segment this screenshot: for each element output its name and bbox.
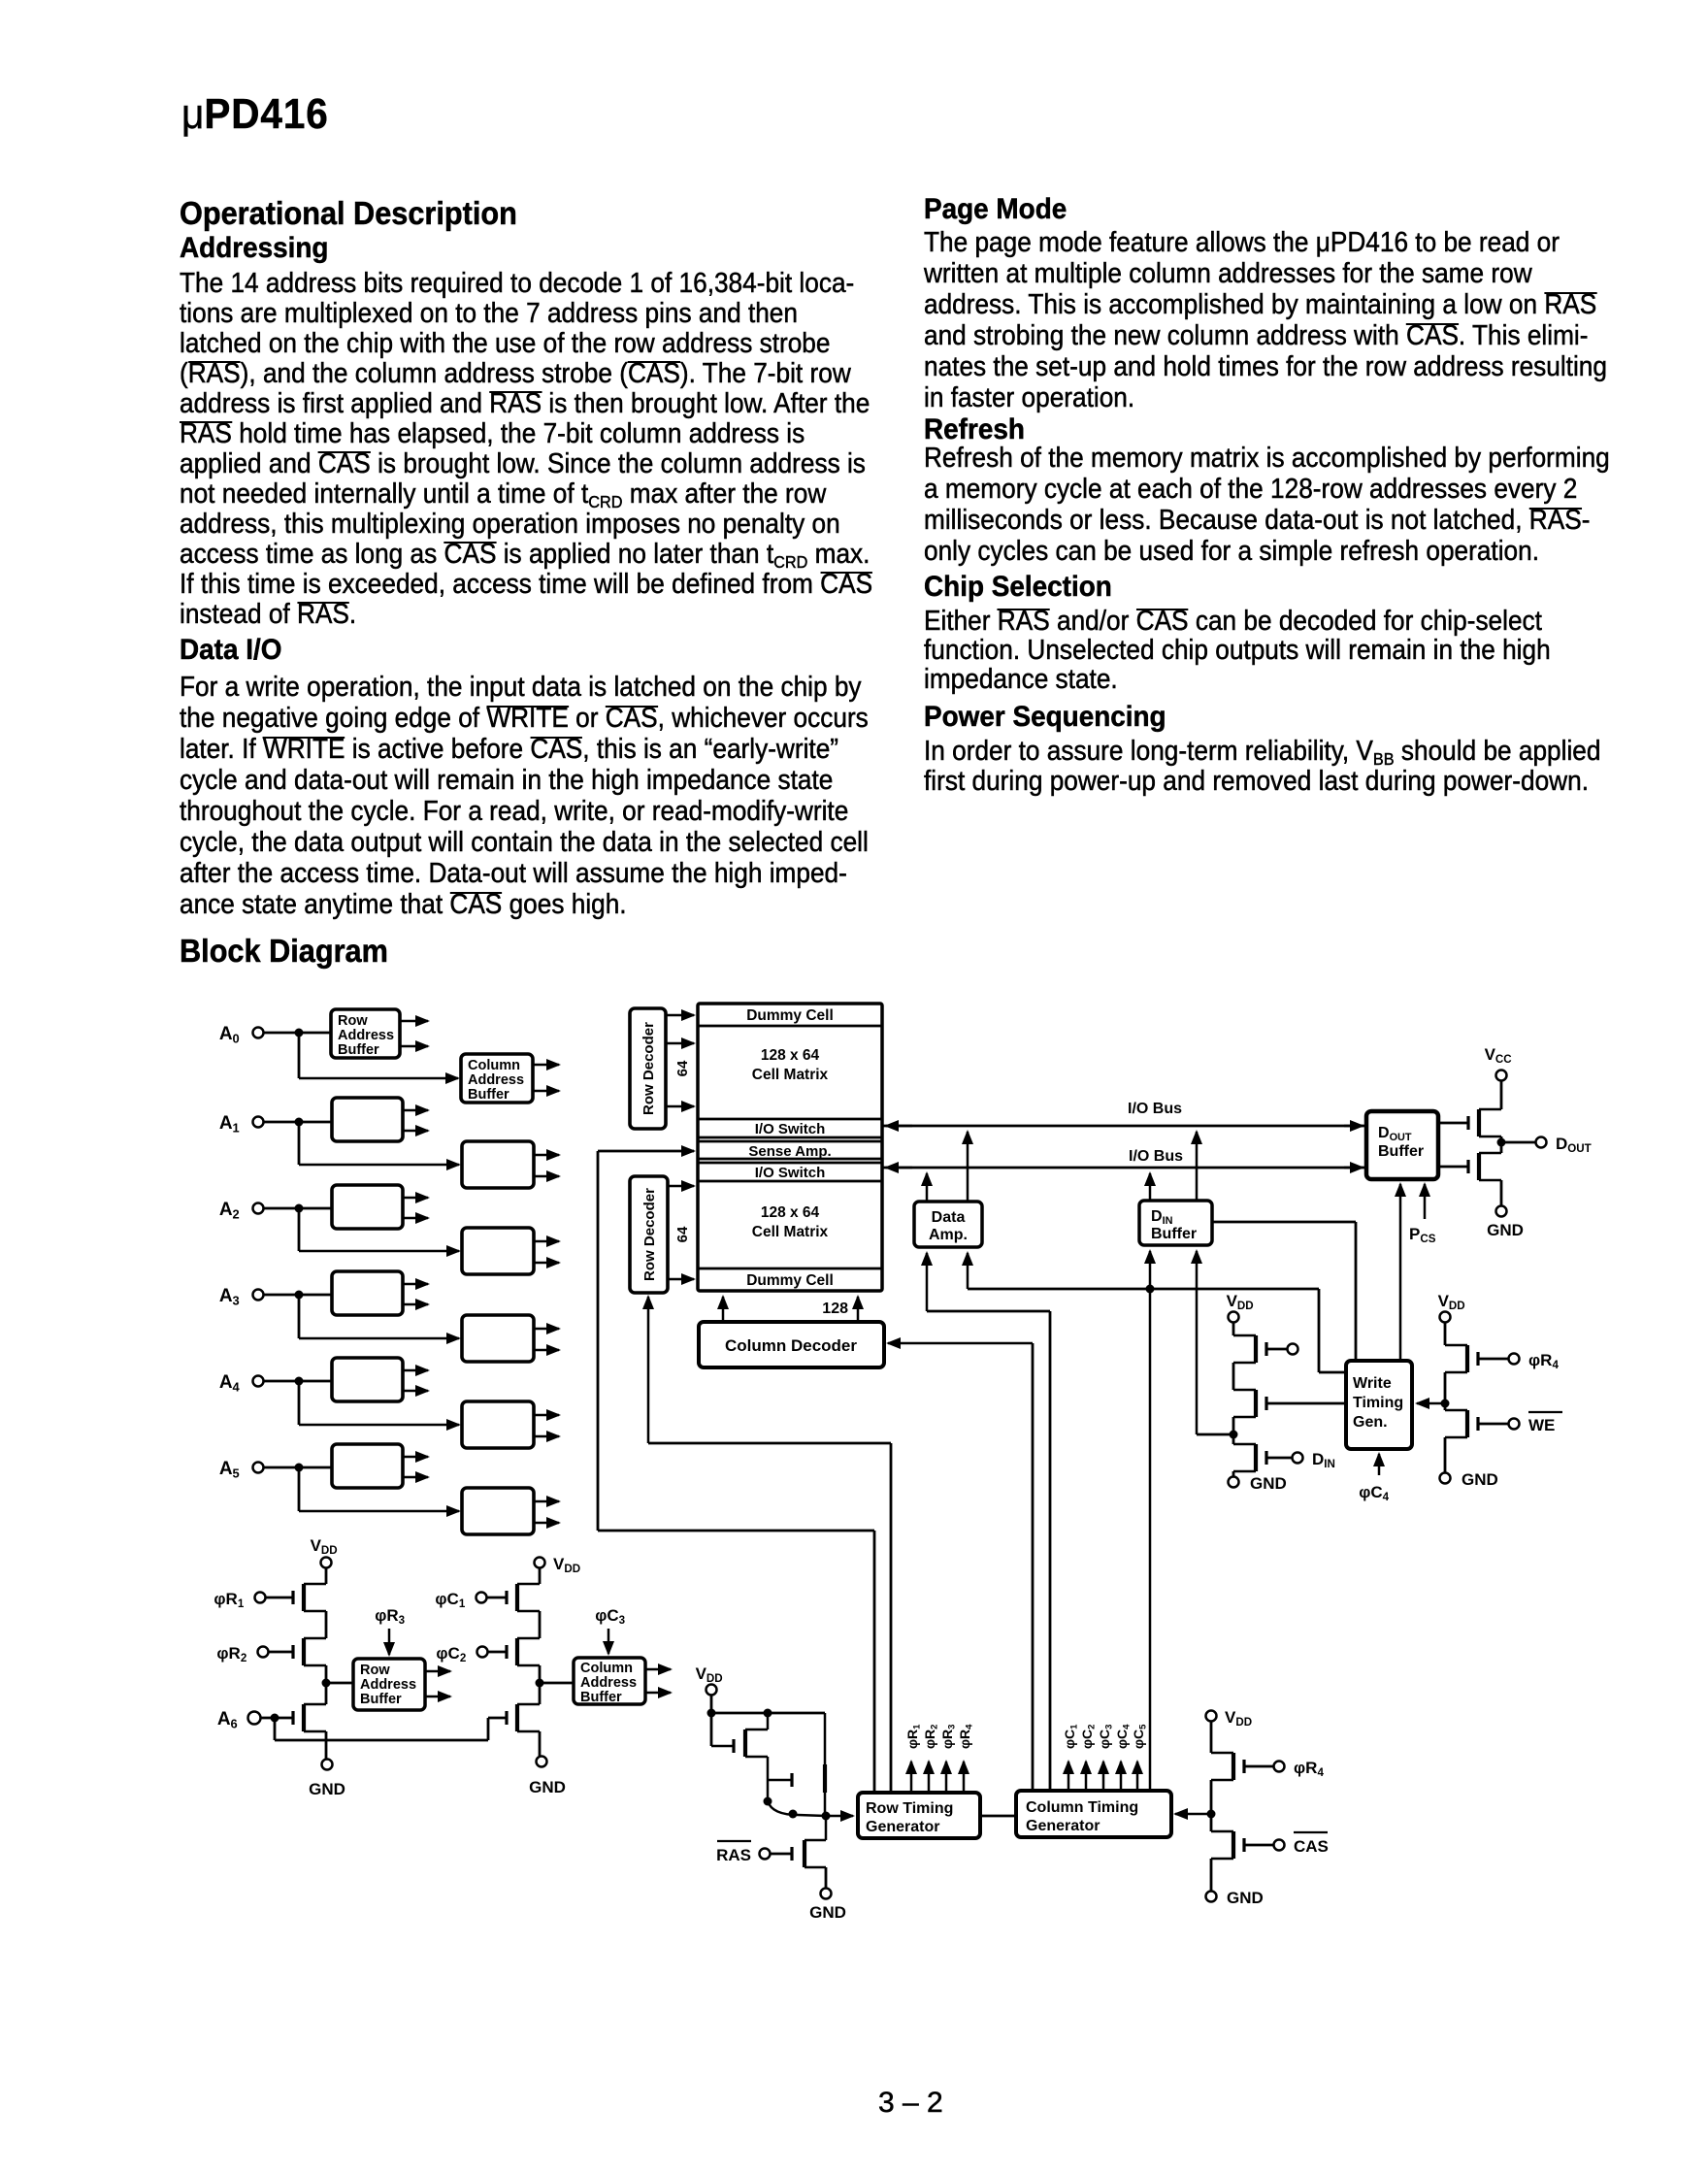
svg-text:VDD: VDD	[1227, 1292, 1259, 1312]
cell matrix upper label	[752, 1047, 829, 1083]
column timing generator	[1016, 1791, 1171, 1837]
svg-text:Address: Address	[360, 1677, 416, 1693]
column stack rail	[536, 1568, 544, 1756]
svg-text:φC5: φC5	[1131, 1721, 1149, 1749]
row address buffer A5	[332, 1444, 403, 1488]
row address buffer A1 output arrows	[403, 1110, 428, 1131]
ras circuit load transistor 1	[711, 1713, 768, 1757]
gnd terminal a6 row stack	[309, 1760, 345, 1799]
wire A1 to row buffer	[264, 1118, 332, 1127]
svg-text:A0: A0	[219, 1024, 245, 1045]
column timing output arrows	[1068, 1762, 1137, 1791]
row address buffer lower	[353, 1659, 425, 1710]
svg-text:GND: GND	[1250, 1474, 1287, 1493]
input terminal A4	[219, 1372, 264, 1394]
column address buffer A4 output arrows	[534, 1415, 559, 1436]
wire write timing to data amp	[968, 1289, 1346, 1372]
column address buffer A1	[462, 1141, 534, 1188]
row address buffer A4	[332, 1358, 403, 1401]
wire row timing to row decoder	[648, 1297, 891, 1793]
row address buffer A4 output arrows	[403, 1370, 428, 1391]
svg-text:DIN: DIN	[1151, 1208, 1177, 1227]
row decoder upper	[630, 1008, 666, 1129]
Dout label	[1556, 1135, 1596, 1155]
wire A5 to column buffer	[299, 1467, 459, 1511]
data amp input arrows	[927, 1253, 968, 1311]
svg-text:GND: GND	[1487, 1221, 1524, 1239]
svg-text:Row Decoder: Row Decoder	[640, 1022, 657, 1115]
wire row timing to column timing	[980, 1815, 1016, 1818]
svg-text:Cell Matrix: Cell Matrix	[752, 1067, 829, 1083]
wire dout buffer to upper gate	[1438, 1122, 1468, 1125]
column address buffer A2 output arrows	[534, 1241, 559, 1263]
din buffer	[1139, 1201, 1212, 1245]
din buffer to io bus arrows	[1150, 1132, 1197, 1201]
svg-text:I/O Bus: I/O Bus	[1128, 1101, 1182, 1117]
phiC1 terminal	[435, 1590, 507, 1610]
wire a6 stack to row address buffer	[326, 1682, 353, 1685]
svg-text:Column Decoder: Column Decoder	[725, 1336, 857, 1355]
128 label	[822, 1301, 848, 1317]
64 label upper	[674, 1060, 691, 1076]
column address buffer A5 output arrows	[534, 1501, 559, 1523]
phiR4 terminal	[1478, 1351, 1563, 1371]
svg-text:PCS: PCS	[1409, 1225, 1440, 1245]
svg-text:A1: A1	[219, 1113, 245, 1135]
svg-text:128: 128	[822, 1301, 848, 1317]
cas stack rail	[1210, 1722, 1213, 1891]
svg-text:DOUT: DOUT	[1556, 1135, 1596, 1155]
svg-text:CAS: CAS	[1294, 1837, 1329, 1856]
io switch upper label	[755, 1121, 826, 1137]
svg-text:φR3: φR3	[939, 1721, 958, 1749]
RAS terminal	[716, 1841, 792, 1864]
svg-text:Column: Column	[580, 1661, 633, 1676]
svg-text:Address: Address	[468, 1072, 524, 1088]
svg-text:φR1: φR1	[904, 1721, 923, 1749]
din stack rail	[1230, 1323, 1238, 1476]
Pcs label	[1409, 1225, 1440, 1245]
row address buffer A3 output arrows	[403, 1284, 428, 1304]
row address buffer A2 output arrows	[403, 1198, 428, 1218]
phiC4 output label	[1114, 1721, 1133, 1749]
WE terminal	[1478, 1412, 1562, 1434]
input terminal A5	[219, 1459, 264, 1480]
row decoder lower	[630, 1176, 668, 1293]
output transistor lower	[1468, 1153, 1501, 1180]
phiC4 input arrow	[1378, 1454, 1381, 1475]
A6 terminal	[217, 1709, 293, 1730]
svg-text:Row: Row	[360, 1663, 390, 1678]
Block Diagram heading	[180, 935, 388, 967]
gnd terminal column stack	[529, 1757, 566, 1797]
svg-text:VDD: VDD	[311, 1536, 343, 1557]
svg-text:GND: GND	[809, 1903, 846, 1922]
din stack gate 1 terminal	[1266, 1344, 1298, 1355]
svg-text:GND: GND	[529, 1778, 566, 1796]
left column headings	[180, 197, 517, 229]
svg-text:φC3: φC3	[595, 1606, 630, 1627]
svg-text:GND: GND	[309, 1780, 345, 1798]
row address buffer A2	[332, 1185, 403, 1229]
data amp to io bus arrows	[927, 1132, 968, 1202]
row decoder upper to matrix arrows	[666, 1015, 694, 1106]
Vdd terminal column stack	[535, 1555, 585, 1575]
we stack rail	[1444, 1323, 1447, 1472]
wire row timing to sense amp	[598, 1151, 874, 1793]
svg-text:φC2: φC2	[1079, 1721, 1098, 1749]
phiC1 output label	[1062, 1721, 1080, 1749]
row address buffer A0	[331, 1009, 400, 1058]
phiC3 input arrow	[595, 1606, 630, 1654]
dummy cell upper label	[746, 1007, 834, 1024]
right column	[924, 195, 1067, 224]
svg-text:Dummy Cell: Dummy Cell	[746, 1007, 834, 1024]
svg-text:A3: A3	[219, 1286, 245, 1307]
svg-text:VDD: VDD	[553, 1555, 585, 1575]
wire column timing to column decoder	[888, 1343, 1033, 1791]
svg-text:I/O Switch: I/O Switch	[755, 1121, 826, 1137]
wire dout buffer to lower gate	[1438, 1166, 1468, 1169]
wire A1 to column buffer	[299, 1122, 459, 1165]
io switch lower label	[755, 1165, 826, 1181]
svg-text:VDD: VDD	[696, 1664, 728, 1685]
svg-text:Row Decoder: Row Decoder	[641, 1188, 658, 1281]
Vdd terminal ras circuit	[696, 1664, 728, 1696]
gnd terminal ras circuit	[809, 1867, 846, 1922]
svg-text:φC4: φC4	[1114, 1721, 1133, 1749]
svg-text:Address: Address	[338, 1028, 394, 1043]
left para 1	[180, 270, 854, 298]
svg-text:A5: A5	[219, 1459, 245, 1480]
page header	[181, 93, 329, 136]
svg-text:φR2: φR2	[216, 1644, 251, 1664]
svg-text:GND: GND	[1227, 1889, 1264, 1907]
CAS terminal	[1244, 1832, 1329, 1856]
phiR3 output label	[939, 1721, 958, 1749]
write timing input arrow from we stack	[1417, 1400, 1450, 1408]
wire column stack to column address buffer	[540, 1682, 574, 1685]
svg-text:64: 64	[674, 1060, 691, 1076]
svg-text:GND: GND	[1462, 1470, 1498, 1489]
Vdd terminal cas stack	[1206, 1708, 1257, 1729]
Vdd terminal din stack	[1227, 1292, 1259, 1323]
svg-text:Gen.: Gen.	[1353, 1414, 1388, 1431]
svg-text:Buffer: Buffer	[1378, 1143, 1424, 1160]
column stack transistor 2	[507, 1638, 540, 1665]
io bus lower	[882, 1167, 1366, 1169]
svg-text:A4: A4	[219, 1372, 245, 1394]
svg-text:Row Timing: Row Timing	[866, 1800, 953, 1817]
svg-text:Buffer: Buffer	[1151, 1226, 1197, 1242]
gnd terminal output stage	[1487, 1206, 1524, 1240]
svg-text:φR3: φR3	[375, 1606, 410, 1627]
Data I/O	[180, 636, 281, 665]
svg-text:Generator: Generator	[866, 1819, 939, 1835]
svg-text:WE: WE	[1528, 1416, 1555, 1434]
row decoder lower to matrix arrows	[668, 1186, 694, 1279]
cell matrix lower label	[752, 1204, 829, 1240]
column decoder to matrix arrows	[723, 1297, 858, 1322]
cell matrix block	[698, 1004, 882, 1291]
column address buffer A0 output arrows	[533, 1065, 559, 1091]
column address buffer A0	[461, 1054, 533, 1103]
dummy cell lower label	[746, 1272, 834, 1289]
row address buffer A3	[332, 1271, 403, 1315]
wire Vcc to output fet	[1500, 1081, 1503, 1109]
phiC4 label	[1359, 1483, 1394, 1503]
wire A6 to column stack gate	[275, 1718, 507, 1740]
column stack transistor 3	[507, 1704, 540, 1731]
wire A2 to row buffer	[264, 1204, 332, 1213]
wire A3 to column buffer	[299, 1295, 459, 1338]
page number	[878, 2089, 943, 2118]
svg-text:Data: Data	[932, 1209, 966, 1226]
wire A5 to row buffer	[264, 1464, 332, 1472]
svg-text:φC1: φC1	[435, 1590, 470, 1610]
dout buffer	[1366, 1111, 1438, 1179]
gnd terminal din stack	[1229, 1474, 1287, 1493]
din stack transistor 1	[1233, 1335, 1266, 1363]
a6 row stack transistor 3	[293, 1704, 326, 1731]
output transistor upper	[1468, 1109, 1501, 1136]
phiR4 terminal cas stack	[1244, 1759, 1329, 1779]
column address buffer lower output arrows	[645, 1669, 671, 1693]
svg-text:Cell Matrix: Cell Matrix	[752, 1224, 829, 1240]
ras circuit output node	[764, 1780, 831, 1821]
phiR3 input arrow	[375, 1606, 410, 1655]
io bus lower label	[1129, 1148, 1183, 1165]
phiR2 terminal	[216, 1644, 293, 1664]
svg-text:RAS: RAS	[716, 1846, 751, 1864]
a6 row stack transistor 2	[293, 1638, 326, 1665]
svg-text:VDD: VDD	[1225, 1708, 1257, 1729]
data amp	[914, 1202, 982, 1247]
svg-text:VDD: VDD	[1438, 1292, 1470, 1312]
Din terminal	[1266, 1450, 1340, 1470]
svg-text:I/O Bus: I/O Bus	[1129, 1148, 1183, 1165]
dout buffer input arrows	[1400, 1184, 1425, 1363]
din stack transistor 3	[1233, 1444, 1266, 1471]
cas stack transistor 2	[1211, 1831, 1244, 1859]
column decoder	[699, 1322, 884, 1367]
we stack transistor 1	[1445, 1345, 1478, 1372]
din buffer input arrow from column timing	[1146, 1251, 1155, 1791]
column address buffer A2	[462, 1228, 534, 1274]
svg-text:φC1: φC1	[1062, 1721, 1080, 1749]
gnd terminal cas stack	[1206, 1889, 1264, 1907]
row address buffer A5 output arrows	[403, 1457, 428, 1477]
svg-text:DOUT: DOUT	[1378, 1125, 1416, 1143]
sense amp label	[748, 1143, 831, 1160]
svg-text:φR2: φR2	[922, 1721, 940, 1749]
svg-text:Column: Column	[468, 1058, 520, 1073]
svg-text:φC4: φC4	[1359, 1483, 1394, 1503]
column stack transistor 1	[507, 1584, 540, 1611]
column address buffer A1 output arrows	[534, 1155, 559, 1176]
input terminal A0	[219, 1024, 264, 1045]
gnd terminal we stack	[1440, 1470, 1498, 1489]
Vcc terminal	[1485, 1045, 1517, 1081]
wire A0 to row buffer	[264, 1029, 331, 1038]
svg-text:φC3: φC3	[1097, 1721, 1115, 1749]
wire din buffer to write timing	[1212, 1222, 1356, 1363]
column timing input arrow from cas stack	[1175, 1810, 1216, 1819]
svg-text:DIN: DIN	[1312, 1450, 1340, 1470]
wire A4 to column buffer	[299, 1381, 459, 1425]
column address buffer A3	[462, 1315, 534, 1362]
phiR1 output label	[904, 1721, 923, 1749]
input terminal A2	[219, 1200, 264, 1221]
wire A3 to row buffer	[264, 1291, 332, 1300]
din stack transistor 2	[1233, 1390, 1266, 1417]
svg-text:Buffer: Buffer	[468, 1087, 509, 1103]
svg-text:Buffer: Buffer	[338, 1042, 379, 1058]
svg-text:Row: Row	[338, 1013, 368, 1029]
svg-text:Buffer: Buffer	[360, 1692, 402, 1707]
row address buffer A0 output arrows	[400, 1021, 428, 1046]
a6 row stack rail	[322, 1568, 331, 1759]
svg-text:Sense Amp.: Sense Amp.	[748, 1143, 831, 1160]
column address buffer lower	[574, 1658, 645, 1705]
phiC2 terminal	[436, 1644, 507, 1664]
ras input transistor	[792, 1816, 826, 1867]
wire A4 to row buffer	[264, 1377, 332, 1386]
svg-text:Buffer: Buffer	[580, 1690, 622, 1705]
phiC5 output label	[1131, 1721, 1149, 1749]
input terminal A1	[219, 1113, 264, 1135]
Vdd terminal a6 row stack	[311, 1536, 343, 1568]
svg-text:φR4: φR4	[1528, 1351, 1563, 1371]
ras circuit load transistor 2	[768, 1713, 825, 1793]
wire gate 2 to write timing	[1266, 1402, 1346, 1405]
write timing generator	[1346, 1361, 1412, 1449]
ras circuit vdd rail	[707, 1696, 826, 1746]
wire A2 to column buffer	[299, 1208, 459, 1251]
wire column timing to data amp	[927, 1311, 1050, 1791]
arrow to row timing generator	[826, 1815, 853, 1818]
svg-text:φR1: φR1	[213, 1590, 248, 1610]
cas stack transistor 1	[1211, 1753, 1244, 1780]
svg-text:φR4: φR4	[957, 1721, 975, 1749]
svg-text:Address: Address	[580, 1675, 637, 1691]
row address buffer A1	[332, 1098, 403, 1141]
wire A0 to column buffer	[299, 1033, 458, 1078]
we stack transistor 2	[1445, 1410, 1478, 1437]
phiR2 output label	[922, 1721, 940, 1749]
phiC3 output label	[1097, 1721, 1115, 1749]
phiR1 terminal	[213, 1590, 293, 1610]
svg-text:Amp.: Amp.	[929, 1227, 968, 1243]
din buffer input arrow from din stack	[1197, 1251, 1232, 1434]
phiR4 output label	[957, 1721, 975, 1749]
node Dout	[1497, 1136, 1547, 1153]
svg-text:A6: A6	[217, 1709, 243, 1730]
matrix divider lines	[698, 1026, 882, 1268]
svg-text:Column Timing: Column Timing	[1026, 1799, 1138, 1816]
svg-text:φC2: φC2	[436, 1644, 471, 1664]
svg-text:Generator: Generator	[1026, 1818, 1100, 1834]
svg-text:Write: Write	[1353, 1375, 1392, 1392]
svg-text:Dummy Cell: Dummy Cell	[746, 1272, 834, 1289]
io bus upper	[882, 1125, 1366, 1128]
svg-text:Timing: Timing	[1353, 1395, 1403, 1411]
svg-text:I/O Switch: I/O Switch	[755, 1165, 826, 1181]
column address buffer A4	[462, 1401, 534, 1448]
column address buffer A3 output arrows	[534, 1329, 559, 1350]
Vdd terminal we stack	[1438, 1292, 1470, 1323]
svg-text:128 x 64: 128 x 64	[761, 1047, 820, 1064]
64 label lower	[674, 1226, 691, 1242]
wire output fet to gnd	[1500, 1180, 1503, 1205]
phiC2 output label	[1079, 1721, 1098, 1749]
row address buffer lower output arrows	[425, 1671, 450, 1696]
svg-text:A2: A2	[219, 1200, 245, 1221]
column address buffer A5	[462, 1488, 534, 1534]
input terminal A3	[219, 1286, 264, 1307]
svg-text:VCC: VCC	[1485, 1045, 1517, 1066]
a6 row stack transistor 1	[293, 1584, 326, 1611]
svg-text:128 x 64: 128 x 64	[761, 1204, 820, 1221]
row timing generator	[858, 1793, 980, 1838]
svg-text:64: 64	[674, 1226, 691, 1242]
io bus upper label	[1128, 1101, 1182, 1117]
row timing output arrows	[911, 1762, 964, 1793]
svg-text:φR4: φR4	[1294, 1759, 1329, 1779]
